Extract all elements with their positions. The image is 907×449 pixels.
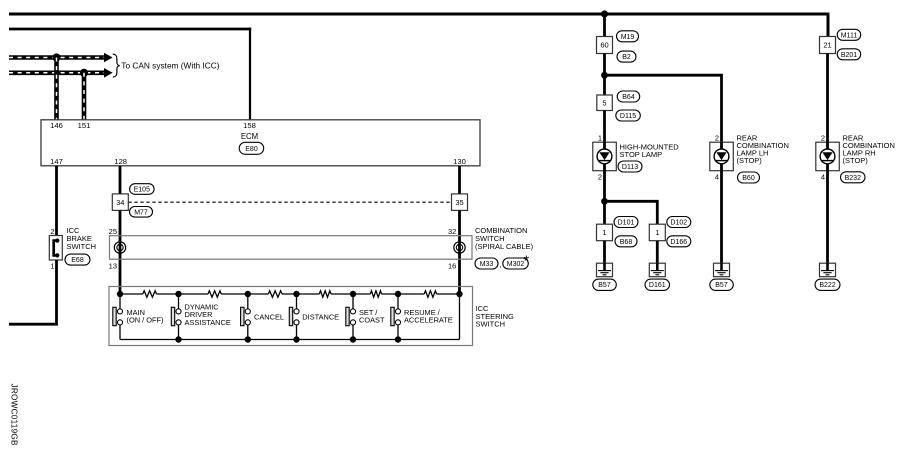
wire connector 5 to high-mounted stop lamp — [603, 111, 606, 143]
ground symbol D161 — [649, 263, 665, 277]
junction top rail DISTANCE — [293, 291, 299, 297]
svg-text:B60: B60 — [742, 175, 755, 182]
resistor R5 — [370, 291, 381, 297]
wire top supply bus — [9, 13, 829, 16]
junction bottom rail DISTANCE — [293, 336, 299, 342]
wire CAN-H line — [9, 55, 104, 60]
lamp REAR COMBINATION LAMP LH (STOP) — [710, 142, 734, 171]
svg-text:32: 32 — [448, 227, 456, 236]
svg-text:B57: B57 — [715, 282, 728, 289]
resistor R3 — [268, 291, 282, 297]
svg-text:ICCBRAKESWITCH: ICCBRAKESWITCH — [67, 226, 97, 251]
lamp HIGH-MOUNTED STOP LAMP — [593, 142, 617, 171]
switch DYNAMIC DRIVER ASSISTANCE — [171, 294, 181, 340]
svg-text:M302: M302 — [507, 261, 525, 268]
svg-text:D161: D161 — [649, 282, 666, 289]
brace to CAN system — [113, 54, 120, 77]
connector box 35 — [452, 194, 468, 211]
wire top bus to connector 60 — [603, 14, 606, 37]
ground symbol B222 — [820, 263, 836, 277]
connector oval M111 — [837, 29, 861, 40]
svg-text:DISTANCE: DISTANCE — [302, 313, 339, 322]
connector oval D115 — [616, 110, 641, 121]
spiral cable symbol right — [454, 242, 465, 253]
connector oval D113 — [618, 161, 642, 172]
junction top rail CANCEL — [245, 291, 251, 297]
connector oval M77 — [130, 207, 153, 218]
dashed connector link 34-35 — [128, 201, 451, 203]
wire drop to connector 21 — [827, 14, 830, 37]
wire rear combination lamp RH to ground — [826, 171, 829, 264]
junction bottom rail RESUME/ACCELERATE — [395, 336, 401, 342]
connector box 21 (M111/B201) — [820, 37, 836, 54]
steering switch right rail — [459, 294, 461, 340]
svg-text:REARCOMBINATIONLAMP LH(STOP): REARCOMBINATIONLAMP LH(STOP) — [737, 133, 789, 165]
wire rear combination lamp LH to ground — [720, 171, 723, 264]
svg-text:35: 35 — [455, 198, 463, 207]
wire connector D101 to ground B57 — [603, 241, 606, 263]
connector oval B64 — [617, 91, 640, 102]
resistor R6 — [424, 291, 436, 297]
svg-text:CANCEL: CANCEL — [254, 313, 284, 322]
connector oval E68 — [65, 254, 90, 265]
junction branch to connector D102 — [601, 198, 608, 205]
svg-text:*: * — [524, 254, 530, 270]
svg-text:158: 158 — [243, 121, 256, 130]
svg-text:151: 151 — [78, 121, 91, 130]
connector box 60 (M19/B2) — [597, 37, 613, 54]
connector box 1 (D101/B68) — [597, 224, 613, 241]
svg-text:2: 2 — [598, 173, 602, 182]
connector box 34 (E105/M77) — [112, 194, 128, 211]
resistor R1 — [143, 291, 157, 297]
svg-text:2: 2 — [715, 133, 719, 142]
connector oval B232 — [841, 172, 866, 183]
connector oval D166 — [667, 236, 691, 247]
svg-text:B201: B201 — [841, 52, 857, 59]
resistor R2 — [208, 291, 221, 297]
svg-text:B64: B64 — [622, 94, 635, 101]
svg-text:1: 1 — [50, 262, 54, 271]
connector oval M33 — [475, 258, 498, 269]
svg-text:B232: B232 — [845, 175, 861, 182]
ground symbol B57 left — [597, 263, 613, 277]
wire connector 60 to connector 5 — [603, 54, 606, 96]
wire ICC brake switch to left margin — [9, 260, 57, 324]
connector oval B57 middle — [710, 279, 734, 290]
svg-text:B57: B57 — [598, 282, 611, 289]
connector oval B60 — [738, 172, 760, 183]
svg-text:E68: E68 — [71, 257, 84, 264]
connector oval E80 — [239, 142, 264, 154]
svg-text:4: 4 — [821, 173, 825, 182]
wire CAN drop to ECM pin 151 — [82, 73, 87, 120]
ground symbol B57 middle — [714, 263, 730, 277]
svg-text:D101: D101 — [618, 220, 635, 227]
junction top rail right corner — [456, 291, 462, 297]
connector oval M19 — [617, 31, 639, 42]
svg-text:REARCOMBINATIONLAMP RH(STOP): REARCOMBINATIONLAMP RH(STOP) — [843, 133, 895, 165]
svg-text:HIGH-MOUNTEDSTOP LAMP: HIGH-MOUNTEDSTOP LAMP — [620, 142, 680, 159]
svg-text:D115: D115 — [620, 113, 636, 120]
connector oval D161 — [645, 279, 670, 290]
svg-text:ECM: ECM — [241, 132, 258, 141]
svg-text:M77: M77 — [134, 209, 148, 216]
svg-text:1: 1 — [598, 133, 602, 142]
svg-text:M19: M19 — [621, 34, 635, 41]
connector oval B222 — [815, 279, 840, 290]
svg-text:60: 60 — [600, 41, 608, 50]
switch MAIN (ON / OFF) — [113, 294, 123, 340]
junction top rail SET/COAST — [350, 291, 356, 297]
ECM box E80 — [41, 120, 480, 166]
steering switch top rail — [120, 293, 460, 295]
junction bottom rail SET/COAST — [350, 336, 356, 342]
connector box 5 (B64/D115) — [597, 95, 613, 111]
junction bottom rail CANCEL — [245, 336, 251, 342]
svg-text:E105: E105 — [134, 187, 150, 194]
arrowhead CAN-H — [104, 53, 113, 63]
connector oval D102 — [667, 217, 691, 228]
svg-text:21: 21 — [823, 41, 831, 50]
svg-text:SET /COAST: SET /COAST — [359, 308, 385, 325]
wire connector D102 to ground D161 — [656, 241, 659, 263]
svg-text:D113: D113 — [622, 164, 638, 171]
junction CAN-L at pin 151 drop — [80, 69, 88, 77]
ICC steering switch outer box — [109, 287, 473, 346]
wire drop to ECM pin 158 — [249, 28, 251, 120]
connector oval D101 — [614, 217, 638, 228]
junction branch to rear combination lamp LH — [601, 72, 608, 79]
svg-text:4: 4 — [715, 173, 719, 182]
svg-text:1: 1 — [655, 228, 659, 237]
ICC brake switch E68 symbol — [49, 236, 62, 261]
svg-text:130: 130 — [453, 157, 466, 166]
combination switch box (spiral cable) — [110, 236, 473, 260]
svg-text:B68: B68 — [620, 239, 633, 246]
svg-text:D102: D102 — [670, 220, 687, 227]
svg-text:1: 1 — [602, 228, 606, 237]
svg-text:M33: M33 — [480, 261, 494, 268]
wire ECM 128 to connector 34 — [119, 166, 122, 194]
svg-text:COMBINATIONSWITCH(SPIRAL CABLE: COMBINATIONSWITCH(SPIRAL CABLE) — [475, 226, 534, 251]
svg-text:146: 146 — [50, 121, 63, 130]
svg-text:,: , — [500, 260, 502, 269]
junction CAN-H at pin 146 drop — [52, 53, 60, 61]
wire CAN-L line — [9, 71, 104, 76]
wire connector 21 to rear combination lamp RH — [826, 54, 829, 143]
junction on top bus at x604 — [601, 10, 608, 17]
wire high-mounted stop lamp to connector D101 — [603, 171, 606, 225]
switch RESUME / ACCELERATE — [391, 294, 401, 340]
connector box 1 (D102/D166) — [649, 224, 665, 241]
svg-text:B2: B2 — [622, 54, 631, 61]
junction top rail MAIN — [117, 291, 123, 297]
wire connector 34 to steering switch via spiral cable — [119, 211, 122, 295]
svg-text:To CAN system (With ICC): To CAN system (With ICC) — [121, 60, 219, 70]
wire branch to connector D102 — [605, 201, 659, 224]
svg-text:D166: D166 — [670, 239, 687, 246]
svg-text:E80: E80 — [245, 146, 258, 153]
spiral cable symbol left — [114, 242, 125, 253]
svg-text:DYNAMICDRIVERASSISTANCE: DYNAMICDRIVERASSISTANCE — [185, 303, 231, 327]
wire CAN drop to ECM pin 146 — [54, 58, 59, 120]
svg-text:RESUME /ACCELERATE: RESUME /ACCELERATE — [404, 308, 453, 325]
junction bottom rail DYNAMIC — [175, 336, 181, 342]
wire ECM 130 to connector 35 — [458, 166, 461, 194]
svg-text:147: 147 — [50, 157, 63, 166]
svg-text:2: 2 — [821, 133, 825, 142]
arrowhead CAN-L — [104, 68, 113, 78]
connector oval B68 — [615, 236, 637, 247]
connector oval M302 — [503, 258, 529, 269]
wire ECM 147 to ICC brake switch — [55, 166, 58, 236]
svg-text:M111: M111 — [841, 32, 858, 39]
svg-text:5: 5 — [602, 99, 606, 108]
steering switch bottom rail — [120, 339, 460, 341]
svg-text:B222: B222 — [819, 282, 835, 289]
wire branch to rear combination lamp LH — [605, 75, 723, 142]
junction top rail RESUME/ACCELERATE — [395, 291, 401, 297]
connector oval E105 — [130, 184, 155, 195]
switch DISTANCE — [289, 294, 299, 340]
switch SET / COAST — [346, 294, 356, 340]
resistor R4 — [319, 291, 331, 297]
wire horizontal to ECM pin 158 — [9, 28, 251, 31]
connector oval B57 — [593, 279, 617, 290]
svg-text:25: 25 — [109, 227, 117, 236]
connector oval B201 — [837, 49, 861, 60]
svg-text:34: 34 — [116, 198, 124, 207]
wire connector 35 to steering switch via spiral cable — [458, 211, 461, 295]
svg-text:ICCSTEERINGSWITCH: ICCSTEERINGSWITCH — [476, 304, 515, 328]
junction top rail DYNAMIC — [175, 291, 181, 297]
svg-text:16: 16 — [448, 262, 456, 271]
connector oval B2 — [617, 51, 636, 62]
svg-text:128: 128 — [114, 157, 127, 166]
svg-text:MAIN(ON / OFF): MAIN(ON / OFF) — [127, 308, 164, 325]
svg-text:JROWC0119GB: JROWC0119GB — [10, 384, 19, 446]
lamp REAR COMBINATION LAMP RH (STOP) — [816, 142, 840, 171]
switch CANCEL — [241, 294, 251, 340]
svg-text:2: 2 — [50, 227, 54, 236]
svg-text:13: 13 — [109, 262, 117, 271]
